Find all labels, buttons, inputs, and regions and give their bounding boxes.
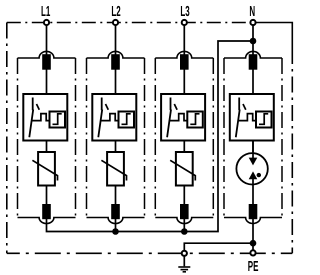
top plug contact L2 (black pin)	[111, 54, 120, 69]
ground symbol bar 1	[178, 266, 190, 268]
junction L3/bus (dot)	[181, 228, 188, 235]
thermal break tick L3	[174, 104, 177, 110]
varistor L3 diagonal stroke	[170, 160, 195, 180]
wire varistor to bottom contact L3	[183, 186, 185, 206]
svg-text:L1: L1	[41, 4, 50, 20]
wire disconnector to arrester element N	[252, 141, 254, 153]
top plug contact N (black pin)	[249, 54, 258, 69]
thermal disconnector box L3	[161, 94, 205, 141]
step function glyph L2	[122, 114, 131, 125]
varistor L3 body	[176, 152, 193, 186]
indication contact box L3	[187, 112, 203, 128]
bottom plug contact L2 (black pin)	[111, 204, 120, 219]
junction L2/bus (dot)	[112, 228, 119, 235]
spark gap top electrode (down arrow)	[249, 158, 258, 166]
wire L2 module bottom to bus	[115, 218, 117, 232]
wire N terminal down into module	[252, 23, 254, 95]
step function glyph L1	[53, 114, 62, 125]
thermal break tick N	[243, 104, 246, 110]
svg-text:N: N	[249, 4, 255, 20]
disconnector fixed post L1	[32, 98, 34, 111]
outer enclosure border left (dash-dot)	[6, 23, 8, 254]
wire L3 module bottom to bus	[183, 218, 185, 232]
disconnector fixed post L3	[170, 98, 172, 111]
junction PE/ground link (dot)	[250, 240, 257, 247]
indication contact box N	[256, 112, 272, 128]
ground terminal (circle)	[182, 251, 187, 256]
spark gap trigger dot	[257, 173, 261, 177]
disconnector switch blade N	[236, 110, 240, 138]
outer enclosure border bottom (dash-dot)	[7, 252, 293, 254]
module N bottom edge with plug-contact arc	[224, 218, 282, 224]
varistor L2 body	[107, 152, 124, 186]
disconnector switch blade L2	[98, 110, 102, 138]
step function glyph N	[259, 114, 268, 125]
wire N terminal to right border	[250, 23, 292, 49]
wire varistor to bottom contact L2	[115, 186, 117, 206]
terminal L1 (circle)	[44, 20, 49, 25]
disconnector fixed post N	[238, 98, 240, 111]
thermal disconnector box N	[230, 94, 274, 141]
disconnector linkage (staircase) L1	[31, 114, 49, 121]
wire varistor to bottom contact L1	[46, 186, 48, 206]
spark gap N-PE circle	[236, 153, 267, 184]
varistor L1 body	[38, 152, 55, 186]
bottom plug contact N (black pin)	[249, 204, 258, 219]
terminal L2 (circle)	[113, 20, 118, 25]
module N enclosure left edge (dash-dot)	[223, 58, 225, 218]
wire spark gap to bottom contact N	[252, 179, 254, 205]
varistor L2 diagonal stroke	[101, 160, 126, 180]
module L2 top edge with plug-contact arc	[87, 51, 145, 58]
disconnector linkage (staircase) L3	[169, 114, 187, 121]
svg-text:L3: L3	[180, 4, 189, 20]
wire N module bottom down to PE terminal	[252, 218, 254, 250]
top plug contact L3 (black pin)	[180, 54, 189, 69]
thermal disconnector box L2	[92, 94, 136, 141]
wire into spark gap N	[252, 141, 254, 159]
disconnector fixed post L2	[101, 98, 103, 111]
module L3 enclosure left edge (dash-dot)	[154, 58, 156, 218]
bottom plug contact L3 (black pin)	[180, 204, 189, 219]
module L3 top edge with plug-contact arc	[155, 51, 213, 58]
terminal L3 (circle)	[182, 20, 187, 25]
varistor L1 diagonal stroke	[32, 160, 57, 180]
wire ground terminal to PE wire	[184, 243, 253, 250]
wire disconnector to arrester element L1	[46, 141, 48, 153]
node N junction (dot)	[250, 38, 257, 45]
wire disconnector to arrester element L3	[183, 141, 185, 153]
ground symbol bar 2	[181, 269, 189, 271]
bottom plug contact L1 (black pin)	[42, 204, 51, 219]
step function glyph L3	[190, 114, 199, 125]
wire into spark gap top electrode	[252, 154, 254, 159]
wire disconnector to arrester element L2	[115, 141, 117, 153]
disconnector linkage (staircase) L2	[100, 114, 118, 121]
thermal break tick L1	[37, 104, 40, 110]
indication contact box L2	[119, 112, 135, 128]
wire L1 terminal down into module	[46, 23, 48, 95]
module L1 top edge with plug-contact arc	[18, 51, 76, 58]
module N top edge with plug-contact arc	[224, 51, 282, 58]
thermal disconnector box L1	[23, 94, 67, 141]
PE terminal (circle)	[250, 250, 255, 255]
outer enclosure border top (dash-dot)	[7, 22, 250, 24]
disconnector linkage (staircase) N	[238, 114, 256, 121]
module L2 bottom edge with plug-contact arc	[87, 218, 145, 224]
disconnector switch blade L1	[29, 110, 33, 138]
svg-text:PE: PE	[248, 259, 259, 275]
ground symbol stem	[183, 257, 185, 267]
wire bus L1-L2-L3 varistor outputs up to node N	[47, 41, 254, 232]
top plug contact L1 (black pin)	[42, 54, 51, 69]
module L1 enclosure right edge (dash-dot)	[75, 58, 77, 218]
thermal break tick L2	[106, 104, 109, 110]
module L3 enclosure right edge (dash-dot)	[212, 58, 214, 218]
outer enclosure border right (dash-dot)	[291, 48, 293, 253]
ground symbol bar 3	[183, 271, 186, 273]
spark gap bottom electrode (up arrow)	[249, 171, 258, 179]
indication contact box L1	[50, 112, 66, 128]
wire L3 terminal down into module	[183, 23, 185, 95]
module L2 enclosure left edge (dash-dot)	[86, 58, 88, 218]
wire L2 terminal down into module	[115, 23, 117, 95]
disconnector switch blade L3	[167, 110, 171, 138]
module L2 enclosure right edge (dash-dot)	[144, 58, 146, 218]
module L3 bottom edge with plug-contact arc	[155, 218, 213, 224]
module L1 bottom edge with plug-contact arc	[18, 218, 76, 224]
module N enclosure right edge (dash-dot)	[281, 58, 283, 218]
svg-text:L2: L2	[111, 4, 120, 20]
terminal N (circle)	[250, 20, 255, 25]
module L1 enclosure left edge (dash-dot)	[17, 58, 19, 218]
